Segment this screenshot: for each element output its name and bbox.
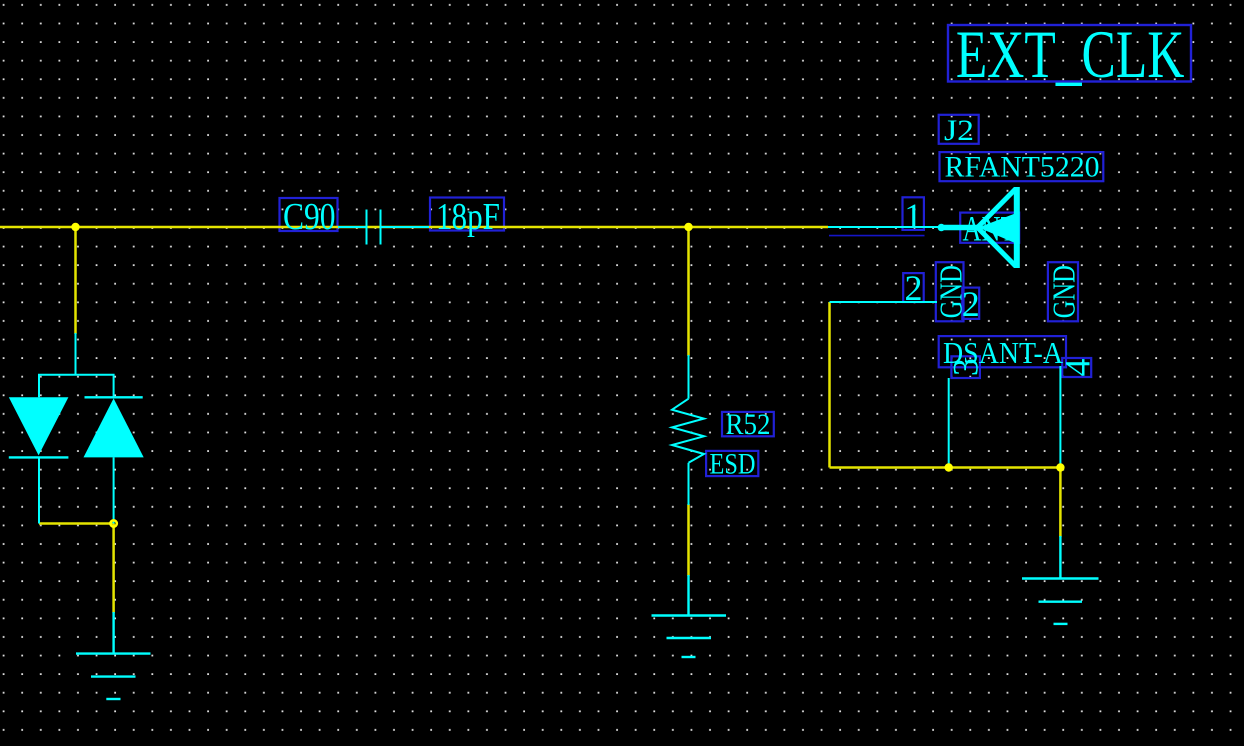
pin number 2 box	[903, 273, 924, 302]
diode D-left (pointing down)	[9, 397, 69, 455]
capacitor C90 lead right	[382, 226, 430, 228]
label R52 box	[722, 412, 774, 436]
label ESD box	[706, 451, 758, 476]
svg-text:J2: J2	[944, 114, 974, 147]
ground power port (R52)	[652, 575, 727, 657]
svg-text:1: 1	[904, 196, 922, 236]
pin name ANT box	[960, 213, 1019, 243]
connector J2 pin 1 line	[828, 226, 939, 228]
svg-text:2: 2	[962, 284, 980, 324]
wire: diode bottom horizontal	[39, 522, 114, 525]
wire: main horizontal net EXT_CLK	[0, 226, 828, 229]
svg-text:RFANT5220: RFANT5220	[945, 151, 1100, 184]
wire: drop to ESD diode pair	[74, 227, 77, 334]
diode D-right (pointing up)	[84, 398, 144, 457]
svg-text:3: 3	[946, 358, 986, 376]
diode pair top bracket	[39, 375, 114, 398]
label RFANT5220 box	[940, 152, 1104, 181]
junction: pin 3	[945, 463, 953, 471]
ground power port (right)	[1022, 536, 1099, 624]
antenna feed end blob	[938, 224, 945, 231]
resistor R52 top lead	[688, 355, 690, 399]
antenna filled arrow	[979, 212, 1019, 244]
label 18pF box	[430, 198, 504, 231]
junction: main wire / R52 branch	[684, 223, 692, 231]
svg-text:R52: R52	[726, 408, 771, 441]
port EXT_CLK box	[948, 25, 1191, 82]
svg-text:C90: C90	[283, 196, 336, 238]
label DSANT-A box	[939, 336, 1066, 367]
pin name GND pin4 box	[1048, 262, 1078, 321]
pin number 2 duplicate box	[962, 288, 979, 319]
antenna outline right bar	[1014, 187, 1020, 268]
antenna outline bottom diagonal	[977, 227, 1016, 267]
junction ring at diode bottom	[110, 520, 116, 526]
junction: main wire / diode branch	[71, 223, 79, 231]
ground power port (left)	[76, 612, 151, 699]
pin name GND pin3 box	[936, 262, 964, 321]
junction: pin 4	[1056, 463, 1064, 471]
wire: bottom horizontal to pins 3,4	[830, 466, 1061, 469]
wire: diode bottom to ground	[112, 524, 115, 614]
connector J2 pin 2 line	[830, 301, 938, 303]
resistor R52 zigzag	[672, 399, 704, 463]
svg-text:2: 2	[905, 268, 923, 308]
svg-text:4: 4	[1058, 359, 1098, 377]
label J2 box	[939, 115, 979, 144]
capacitor C90 lead left	[338, 226, 366, 228]
svg-text:18pF: 18pF	[436, 196, 500, 238]
diode pair bottom-left lead	[38, 457, 40, 523]
diode pair bottom-right lead	[113, 457, 115, 523]
svg-text:GND: GND	[1046, 265, 1082, 318]
antenna feed line	[942, 225, 980, 231]
pin number 4 box	[1062, 358, 1091, 377]
capacitor C90 plates	[366, 210, 368, 245]
ESD diode pair: top pin	[75, 333, 77, 375]
pin number 3 box	[951, 356, 980, 378]
wire: drop to R52	[687, 227, 690, 356]
connector J2 pin 3 line	[948, 378, 950, 468]
pin 1 selection underline	[829, 235, 925, 237]
connector J2 pin 4 line	[1059, 366, 1061, 468]
wire: to right ground	[1059, 468, 1062, 538]
wire: pin2 vertical drop	[828, 302, 831, 468]
diode D-right cathode bar	[85, 396, 143, 398]
antenna outline top diagonal	[977, 189, 1016, 229]
diode D-left cathode bar	[9, 456, 69, 458]
wire: R52 to ground	[687, 504, 690, 576]
resistor R52 bottom lead	[688, 463, 690, 505]
svg-text:EXT_CLK: EXT_CLK	[956, 16, 1185, 92]
label C90 box	[280, 198, 338, 231]
pin number 1 box	[903, 197, 924, 230]
svg-text:ESD: ESD	[710, 448, 756, 481]
